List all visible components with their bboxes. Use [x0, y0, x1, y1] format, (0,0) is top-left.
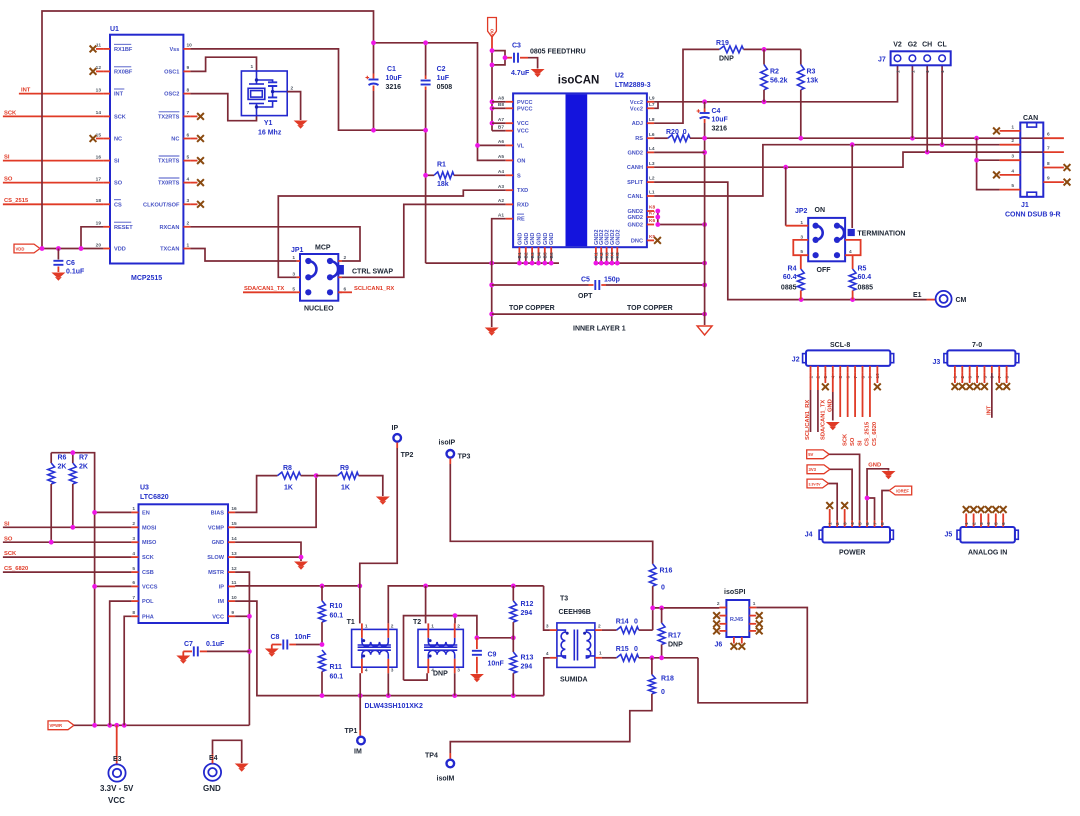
svg-text:K2: K2	[599, 252, 605, 258]
wire T1 pin4 to IM rail	[359, 673, 361, 695]
ground at crystal	[294, 121, 308, 126]
wire T2 pin3 to IM rail	[454, 673, 456, 695]
J6 right pin stubs	[749, 607, 756, 609]
JP1 pin pads	[305, 258, 311, 264]
wire VL ON feed	[478, 144, 506, 146]
svg-text:CLKOUT/SOF: CLKOUT/SOF	[143, 202, 180, 208]
wire U1 OSC1 to crystal	[190, 57, 256, 71]
svg-text:E1: E1	[913, 292, 922, 299]
svg-text:TP1: TP1	[345, 728, 358, 735]
svg-text:K1: K1	[594, 252, 600, 258]
wire EN feed	[95, 511, 132, 513]
wire GND2 rail under U2	[594, 262, 705, 264]
transformer T1 common-mode choke	[352, 629, 397, 667]
wire T2 pin1 from segment	[425, 586, 427, 624]
svg-text:0: 0	[634, 646, 638, 653]
svg-text:3.3V-5V: 3.3V-5V	[809, 482, 822, 486]
resistor R14 0	[602, 629, 617, 631]
wire U1 OSC2 to crystal	[190, 94, 256, 121]
svg-text:L8: L8	[649, 117, 655, 123]
svg-text:1: 1	[1011, 124, 1014, 130]
U1 pin stubs right	[183, 48, 190, 50]
wire RS GND2 line to DSUB pin6	[690, 137, 1044, 139]
junction dots T1.2 segment	[423, 584, 428, 589]
svg-text:60.4: 60.4	[858, 274, 872, 281]
junction dots GND2 rail	[594, 261, 599, 266]
J4 pin1 X	[829, 509, 831, 520]
test point TP1 IM	[359, 696, 361, 730]
IC U2 LTM2889-3 isoCAN body	[513, 93, 647, 247]
svg-text:GND: GND	[549, 233, 555, 245]
svg-text:2: 2	[391, 623, 394, 629]
svg-text:0: 0	[661, 689, 665, 696]
IC U3 LTC6820 body	[139, 504, 229, 623]
wire R14 up to isoIP node	[652, 608, 654, 630]
svg-text:IM: IM	[354, 749, 362, 756]
svg-text:1: 1	[910, 70, 916, 73]
svg-text:10nF: 10nF	[295, 634, 312, 641]
svg-text:VDD: VDD	[16, 246, 25, 251]
svg-text:13k: 13k	[807, 78, 819, 85]
svg-text:1: 1	[753, 601, 756, 607]
svg-text:GND: GND	[827, 399, 833, 412]
svg-text:R8: R8	[283, 465, 292, 472]
ground at C6	[51, 273, 65, 278]
svg-text:Vcc2: Vcc2	[630, 100, 643, 106]
svg-text:S: S	[517, 173, 521, 179]
wire inner layer shield line	[492, 313, 705, 315]
svg-text:SCK: SCK	[142, 555, 154, 561]
U2 DNC X mark	[654, 237, 661, 244]
junction dots IP line	[320, 584, 325, 589]
svg-text:C9: C9	[488, 652, 497, 659]
svg-text:INNER LAYER 1: INNER LAYER 1	[573, 326, 626, 333]
svg-text:9: 9	[187, 65, 190, 71]
svg-text:3: 3	[132, 536, 135, 542]
svg-text:RXCAN: RXCAN	[160, 225, 180, 231]
svg-text:1: 1	[940, 70, 946, 73]
svg-text:ON: ON	[517, 158, 525, 164]
svg-text:R15: R15	[616, 646, 629, 653]
U2 right pin stubs	[647, 101, 654, 103]
svg-text:DNP: DNP	[719, 56, 734, 63]
svg-text:7: 7	[132, 595, 135, 601]
svg-text:CANL: CANL	[627, 194, 643, 200]
svg-text:3216: 3216	[712, 126, 728, 133]
resistor R13 294	[512, 638, 514, 652]
wire CANH to DSUB pin7	[654, 152, 1044, 167]
junction dots IM rail	[320, 693, 325, 698]
svg-text:1: 1	[251, 64, 254, 70]
crystal cap connections	[272, 86, 274, 97]
resistor R19 DNP	[719, 46, 743, 53]
svg-text:6: 6	[865, 522, 871, 525]
wire R18 to TP4 isoIM	[450, 694, 652, 753]
svg-text:R9: R9	[340, 465, 349, 472]
svg-text:4.7uF: 4.7uF	[511, 70, 530, 77]
svg-text:1: 1	[599, 651, 602, 657]
svg-text:3: 3	[979, 522, 985, 525]
svg-text:T1: T1	[347, 619, 355, 626]
svg-text:VCCS: VCCS	[142, 584, 158, 590]
svg-text:B8: B8	[498, 102, 504, 108]
wire GND2 K-pin cluster	[657, 211, 659, 225]
svg-text:K4: K4	[610, 252, 616, 258]
svg-text:IM: IM	[218, 599, 225, 605]
svg-text:L4: L4	[649, 146, 655, 152]
wire U2 RXD to JP1 pin4	[342, 204, 506, 277]
svg-text:VCC: VCC	[517, 121, 529, 127]
svg-text:B7: B7	[498, 124, 504, 130]
wire BIAS to R8	[235, 476, 277, 513]
svg-text:150p: 150p	[604, 277, 620, 284]
svg-text:10: 10	[187, 43, 193, 49]
svg-text:R11: R11	[330, 664, 343, 671]
resistor R7 2K pullup	[72, 453, 74, 463]
svg-text:1: 1	[292, 255, 295, 261]
J6 bottom pins	[733, 637, 735, 644]
svg-text:3216: 3216	[386, 84, 402, 91]
wire DSUB pin3 pin5 ground branch	[977, 138, 1000, 160]
capacitor C3 4.7uF feedthru	[505, 57, 512, 59]
svg-text:19: 19	[96, 221, 102, 227]
svg-text:OPT: OPT	[578, 293, 593, 300]
svg-text:294: 294	[521, 610, 533, 617]
wire MSTR tie to VCC	[235, 572, 249, 725]
svg-text:3: 3	[292, 272, 295, 278]
svg-text:T3: T3	[560, 596, 568, 603]
svg-text:12: 12	[231, 566, 237, 572]
svg-text:R2: R2	[770, 69, 779, 76]
wire T2 pin4 to bypass	[404, 673, 428, 680]
svg-text:R1: R1	[437, 162, 446, 169]
svg-text:CS: CS	[114, 202, 122, 208]
svg-text:10: 10	[231, 595, 237, 601]
ground GND1 arrow	[485, 328, 499, 333]
svg-text:1K: 1K	[341, 485, 350, 492]
svg-text:VCC: VCC	[212, 614, 224, 620]
svg-text:2: 2	[457, 623, 460, 629]
svg-text:15: 15	[231, 521, 237, 527]
svg-text:RS: RS	[635, 136, 643, 142]
wire POL to VPWR	[110, 601, 132, 725]
svg-text:EN: EN	[142, 510, 150, 516]
wire CANH down to JP2 pin1	[785, 167, 787, 226]
svg-text:2: 2	[291, 86, 294, 92]
svg-text:GND2: GND2	[627, 223, 643, 229]
svg-text:DNP: DNP	[668, 642, 683, 649]
J2 pin wires and labels	[810, 366, 812, 373]
svg-text:NC: NC	[171, 137, 179, 143]
ground at U3 GND SLOW	[294, 562, 308, 567]
svg-text:SDA/CAN1_TX: SDA/CAN1_TX	[244, 286, 284, 292]
junction dots RS GND2 line	[702, 136, 707, 141]
svg-text:V2: V2	[893, 42, 902, 49]
wire IP segment down to T3 pin3	[544, 586, 550, 630]
svg-text:PHA: PHA	[142, 614, 154, 620]
wire U2 RE to GND1	[492, 219, 506, 263]
svg-text:4: 4	[365, 667, 368, 673]
svg-text:C6: C6	[66, 260, 75, 267]
svg-text:4: 4	[850, 522, 856, 525]
wire VPWR rail	[74, 724, 249, 726]
svg-text:DNP: DNP	[433, 671, 448, 678]
svg-text:GND: GND	[537, 233, 543, 245]
wire VCC pin9 stub	[235, 615, 249, 617]
svg-text:MCP: MCP	[315, 245, 331, 252]
svg-text:U3: U3	[140, 485, 149, 492]
svg-text:1uF: 1uF	[437, 75, 450, 82]
svg-text:VDD: VDD	[114, 247, 126, 253]
J1 right pin stubs	[1043, 137, 1064, 139]
test point TP4 isoIM	[449, 753, 451, 759]
svg-text:CM: CM	[956, 297, 967, 304]
junction dots GND1 column	[489, 283, 494, 288]
svg-text:U2: U2	[615, 73, 624, 80]
svg-text:K8: K8	[649, 205, 655, 211]
capacitor C7 0.1uF	[183, 650, 192, 652]
wire isoIP line to RJ45	[653, 607, 720, 609]
svg-text:E3: E3	[113, 756, 122, 763]
resistor R3 13k	[800, 49, 802, 64]
svg-text:14: 14	[231, 536, 237, 542]
svg-text:CANH: CANH	[627, 165, 643, 171]
J6 left pin stubs	[719, 607, 726, 609]
svg-text:0: 0	[661, 585, 665, 592]
svg-text:POWER: POWER	[839, 550, 865, 557]
capacitor C4 10uF 3216	[704, 102, 706, 109]
svg-text:4: 4	[1011, 168, 1014, 174]
connector J3 7-0 header	[947, 350, 1015, 366]
svg-text:B5: B5	[543, 252, 549, 258]
wire C2 column down to R1 and GND rail	[425, 130, 427, 263]
svg-text:R14: R14	[616, 619, 629, 626]
svg-text:2K: 2K	[58, 464, 67, 471]
svg-text:CS_6820: CS_6820	[872, 422, 878, 446]
ground at J4	[882, 471, 896, 476]
wire IM from U3 to rail	[235, 601, 544, 696]
svg-text:J2: J2	[792, 357, 800, 364]
jumper JP2 termination block	[808, 218, 845, 261]
terminal E4 GND	[204, 764, 221, 781]
svg-text:7: 7	[872, 522, 878, 525]
svg-text:R16: R16	[660, 568, 673, 575]
svg-text:L6: L6	[649, 132, 655, 138]
svg-text:SI: SI	[114, 159, 120, 165]
resistor R11 60.1	[319, 650, 326, 672]
svg-text:DNC: DNC	[631, 238, 643, 244]
svg-text:18: 18	[96, 198, 102, 204]
svg-text:2: 2	[598, 624, 601, 630]
wire top rail C1 C2 to VL	[374, 43, 478, 146]
svg-text:GND2: GND2	[627, 215, 643, 221]
svg-text:OSC2: OSC2	[164, 92, 179, 98]
svg-text:6: 6	[1047, 132, 1050, 138]
J3 pin wires	[954, 366, 956, 373]
svg-text:GND: GND	[530, 233, 536, 245]
wire Vss to GND rail under C1 C2	[190, 49, 425, 130]
U2 bottom GND pins left	[518, 247, 520, 256]
svg-text:1: 1	[925, 70, 931, 73]
ground at C8	[265, 649, 279, 654]
svg-text:CONN DSUB 9-R: CONN DSUB 9-R	[1005, 212, 1061, 219]
svg-text:VCC: VCC	[108, 796, 125, 805]
svg-text:2: 2	[187, 221, 190, 227]
junction dots C1 C2	[371, 40, 376, 45]
capacitor C9 10nF	[476, 638, 478, 649]
svg-text:CH: CH	[922, 42, 932, 49]
svg-text:MSTR: MSTR	[208, 570, 224, 576]
svg-text:VCC: VCC	[517, 129, 529, 135]
svg-text:4: 4	[986, 522, 992, 525]
transformer T3 CEEH96B	[557, 623, 595, 668]
jumper JP1 MCP CTRL SWAP	[300, 254, 338, 301]
svg-text:J5: J5	[945, 532, 953, 539]
svg-text:isoIM: isoIM	[437, 776, 455, 783]
svg-text:R3: R3	[807, 69, 816, 76]
svg-text:0885: 0885	[858, 285, 874, 292]
svg-text:SPLIT: SPLIT	[627, 180, 643, 186]
svg-text:TX2RTS: TX2RTS	[158, 114, 180, 120]
power flag 3.3V-5V to J4 pin2	[807, 479, 829, 488]
svg-text:ANALOG IN: ANALOG IN	[968, 550, 1007, 557]
svg-text:SCL-8: SCL-8	[830, 342, 850, 349]
wire CANL to DSUB pin2	[654, 145, 1000, 196]
resistor R16 0	[649, 564, 656, 586]
svg-text:MISO: MISO	[142, 540, 157, 546]
svg-text:CEEH96B: CEEH96B	[559, 609, 591, 616]
svg-text:isoIP: isoIP	[439, 440, 456, 447]
svg-text:LTM2889-3: LTM2889-3	[615, 82, 651, 89]
svg-text:G2: G2	[908, 42, 917, 49]
svg-text:RX0BF: RX0BF	[114, 69, 133, 75]
svg-text:3.3V - 5V: 3.3V - 5V	[100, 784, 134, 793]
resistor R12 294	[512, 586, 514, 601]
svg-text:1K: 1K	[284, 485, 293, 492]
svg-text:2: 2	[1011, 138, 1014, 144]
terminal E1 CM	[927, 299, 936, 301]
svg-text:1: 1	[365, 623, 368, 629]
wire CANL down to JP2 pin2	[851, 145, 853, 228]
J1 X marks unconnected pins	[993, 128, 1000, 135]
svg-text:IOREF: IOREF	[896, 488, 909, 493]
resistor R20 0 on RS line	[654, 137, 668, 139]
junction dots CAN lines	[783, 165, 788, 170]
svg-text:PVCC: PVCC	[517, 100, 533, 106]
svg-text:CAN: CAN	[1023, 115, 1038, 122]
svg-text:J6: J6	[715, 642, 723, 649]
wire T1 pin2 up to isoIP segment	[388, 586, 543, 624]
wire GND1 column to ground arrow	[491, 263, 493, 327]
test point TP3 isoIP	[447, 450, 455, 458]
connector J2 SCL-8 header	[806, 350, 890, 366]
svg-text:0885: 0885	[781, 285, 797, 292]
svg-text:NC: NC	[114, 137, 122, 143]
svg-text:R7: R7	[79, 455, 88, 462]
wire R6 R7 tops to VCC column	[51, 453, 94, 726]
capacitor C1 10uF 3216	[373, 43, 375, 74]
svg-text:SO: SO	[850, 437, 856, 446]
svg-text:4: 4	[187, 176, 190, 182]
svg-text:8: 8	[1047, 161, 1050, 167]
wire SPLIT to termination rail	[654, 182, 926, 300]
power flag VDD	[14, 244, 40, 253]
svg-text:A5: A5	[498, 154, 504, 160]
svg-text:IP: IP	[219, 584, 225, 590]
svg-text:A4: A4	[498, 169, 504, 175]
svg-text:A7: A7	[498, 117, 504, 123]
wire VCMP from R8 R9 node	[235, 476, 316, 528]
resistor R6 2K pullup	[50, 453, 52, 463]
wire R9 to ground	[359, 476, 383, 496]
svg-text:4: 4	[546, 651, 549, 657]
svg-text:C2: C2	[437, 66, 446, 73]
ground at C3	[531, 69, 545, 74]
svg-text:B1: B1	[517, 252, 523, 258]
svg-text:0: 0	[634, 619, 638, 626]
wire VIO to U2 PVCC VCC pins	[492, 101, 506, 103]
svg-text:11: 11	[96, 43, 101, 49]
resistor R17 DNP	[661, 608, 663, 623]
svg-text:U1: U1	[110, 26, 119, 33]
svg-text:9: 9	[1047, 176, 1050, 182]
svg-text:8: 8	[132, 610, 135, 616]
svg-text:B3: B3	[530, 252, 536, 258]
junction dots U3 left	[70, 450, 75, 455]
svg-text:SI: SI	[4, 155, 10, 161]
svg-text:A3: A3	[498, 184, 504, 190]
svg-text:CL: CL	[937, 42, 947, 49]
JP1 shorting arcs	[308, 261, 316, 277]
svg-text:13: 13	[96, 87, 102, 93]
capacitor C8 10nF	[272, 644, 282, 646]
svg-text:CTRL SWAP: CTRL SWAP	[352, 269, 393, 276]
svg-text:R13: R13	[521, 655, 534, 662]
C3 feedthru loop wires	[492, 51, 505, 58]
svg-text:9: 9	[231, 610, 234, 616]
wire VIO flag down to C3 loop	[491, 37, 493, 51]
svg-text:Vss: Vss	[169, 47, 179, 53]
svg-text:LTC6820: LTC6820	[140, 494, 169, 501]
svg-text:CS_2515: CS_2515	[4, 198, 29, 204]
wire crystal to ground	[287, 92, 300, 120]
svg-text:RXD: RXD	[517, 202, 529, 208]
svg-text:INT: INT	[114, 92, 124, 98]
svg-text:B6: B6	[549, 252, 555, 258]
wire VDD rail to U1 pin 20	[40, 248, 103, 250]
svg-text:J7: J7	[878, 57, 886, 64]
svg-text:GND2: GND2	[615, 229, 621, 245]
wire T1 pin3 to IM rail	[387, 673, 389, 695]
svg-text:5: 5	[187, 154, 190, 160]
svg-text:0508: 0508	[437, 84, 453, 91]
J1 left pin stubs	[1000, 130, 1021, 132]
svg-text:T2: T2	[413, 619, 421, 626]
svg-text:GND: GND	[543, 233, 549, 245]
resistor R4 60.4 0885	[800, 255, 802, 269]
svg-text:TP2: TP2	[401, 452, 414, 459]
junction dots GND1 rail	[489, 261, 494, 266]
svg-text:2: 2	[132, 521, 135, 527]
J5 pin X marks	[965, 514, 967, 528]
capacitor C2 1uF 0508	[425, 43, 427, 76]
power flag VPWR	[48, 721, 74, 730]
svg-text:1: 1	[132, 506, 135, 512]
wire Vcc2 rail to J7	[654, 102, 658, 109]
svg-text:5V: 5V	[808, 452, 813, 457]
svg-text:R12: R12	[521, 601, 534, 608]
svg-text:56.2k: 56.2k	[770, 78, 788, 85]
